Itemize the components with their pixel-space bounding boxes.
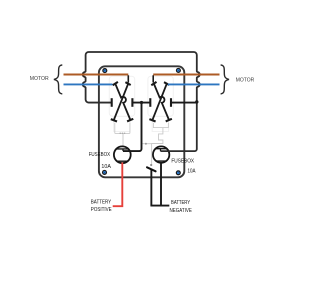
label FUSEBOX left xyxy=(89,152,111,158)
svg-text:POSITIVE: POSITIVE xyxy=(91,207,112,213)
svg-text:NEGATIVE: NEGATIVE xyxy=(170,208,192,214)
wire battery negative bar xyxy=(150,205,169,207)
label BATTERY POSITIVE xyxy=(91,199,112,213)
internal wire (grey) left switch xyxy=(115,123,130,146)
svg-text:MOTOR: MOTOR xyxy=(236,78,255,84)
switch S2 xyxy=(149,82,172,122)
label MOTOR right xyxy=(236,78,255,84)
wire motor right blue xyxy=(168,83,220,85)
wire pole link (S1 right pole to S2 left pole) xyxy=(133,102,150,104)
fuse F2 xyxy=(153,146,169,162)
label BATTERY NEGATIVE xyxy=(170,200,192,214)
junction dot (grey) xyxy=(145,143,147,145)
fuse F1 xyxy=(114,146,131,163)
svg-text:BATTERY: BATTERY xyxy=(91,199,112,205)
rocker ghost right xyxy=(148,76,173,131)
junction J2 xyxy=(195,100,198,103)
wire loop (left pole of S1 over top to F2) xyxy=(83,52,200,151)
wire motor left blue xyxy=(64,83,113,85)
brace right xyxy=(221,65,229,94)
svg-text:FUSEBOX: FUSEBOX xyxy=(89,152,111,158)
screw top left xyxy=(102,68,107,73)
svg-text:10A: 10A xyxy=(101,164,111,170)
wire orange stub S1 xyxy=(127,75,129,82)
contact pivot dot xyxy=(150,164,152,166)
label MOTOR left xyxy=(30,76,49,82)
wire battery negative 2 xyxy=(160,162,162,206)
internal wire (grey) marks left xyxy=(120,133,126,134)
wire S2 right pole to loop xyxy=(172,102,197,104)
screw bottom left xyxy=(102,170,107,175)
wire orange stub S2 xyxy=(152,75,154,82)
panel box xyxy=(99,66,184,177)
wire motor right orange xyxy=(153,74,219,76)
wire battery negative 1 xyxy=(150,170,152,206)
rocker ghost left xyxy=(109,76,134,131)
svg-text:BATTERY: BATTERY xyxy=(171,200,190,206)
wire battery positive (red) xyxy=(113,163,123,207)
label 10A right xyxy=(188,169,196,175)
svg-text:10A: 10A xyxy=(188,169,196,175)
wire motor left orange xyxy=(64,74,129,76)
wire S1 right pole down to F1 xyxy=(123,103,142,152)
label 10A left xyxy=(101,164,111,170)
screw top right xyxy=(176,68,181,73)
contact lever xyxy=(147,167,156,171)
svg-text:MOTOR: MOTOR xyxy=(30,76,49,82)
brace left xyxy=(54,65,62,94)
internal wire (grey) right switch xyxy=(142,123,169,164)
svg-text:FUSEBOX: FUSEBOX xyxy=(171,159,194,165)
screw bottom right xyxy=(176,170,181,175)
junction J1 xyxy=(140,101,143,104)
label FUSEBOX right xyxy=(171,159,194,165)
switch S1 xyxy=(111,82,134,122)
